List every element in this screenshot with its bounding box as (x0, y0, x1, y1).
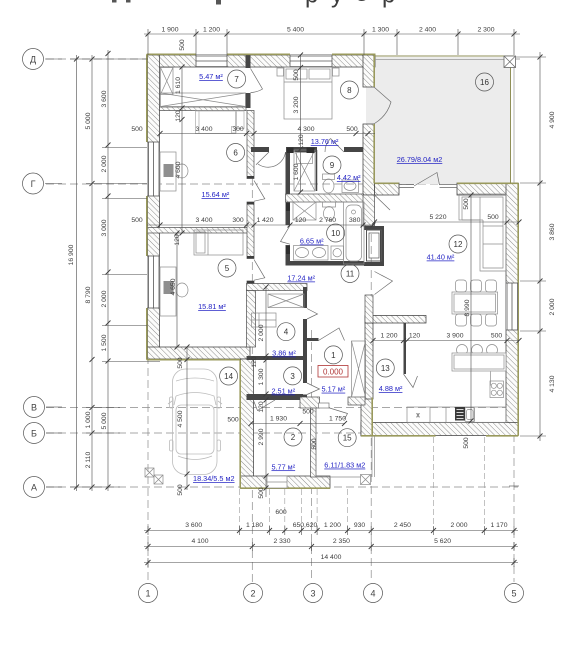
living room vertical dim 8990 (470, 195, 472, 421)
olive garage top wall outer (147, 359, 240, 361)
door room8 to terrace (375, 88, 392, 124)
bathroom/terrace side wall upper (363, 55, 375, 87)
pantry top wall (365, 316, 426, 324)
internal vertical dim room 8 (300, 55, 302, 192)
svg-text:4 300: 4 300 (297, 126, 314, 133)
svg-text:120: 120 (258, 401, 265, 413)
svg-text:Б: Б (31, 429, 37, 439)
bottom tick verticals (148, 526, 514, 567)
svg-text:120: 120 (409, 333, 421, 340)
svg-text:8 990: 8 990 (464, 299, 471, 316)
svg-text:6: 6 (233, 149, 238, 158)
olive outer contour left wall (146, 54, 148, 142)
nightstand room 6 (237, 111, 245, 129)
room 4 circle (277, 323, 295, 341)
window living room right wall (506, 283, 518, 330)
svg-text:5 000: 5 000 (101, 412, 108, 429)
svg-text:3 200: 3 200 (293, 96, 300, 113)
top dimension line (144, 33, 520, 35)
svg-text:500: 500 (177, 484, 184, 496)
olive wall under terrace (375, 182, 400, 184)
opening living room left (375, 195, 391, 210)
front door threshold (319, 403, 330, 408)
svg-text:4: 4 (370, 589, 375, 599)
rooms 4/3/2 vertical dim col (265, 287, 267, 497)
svg-text:1 200: 1 200 (324, 522, 341, 529)
svg-text:5 620: 5 620 (434, 538, 451, 545)
room 11 circle (341, 265, 359, 283)
axis circle G (23, 173, 44, 194)
room 13 circle (376, 359, 394, 377)
room 10 circle (327, 224, 345, 242)
room1 bottom wall (300, 397, 320, 408)
svg-text:500: 500 (227, 417, 239, 424)
svg-text:15: 15 (343, 434, 352, 443)
svg-text:120: 120 (295, 217, 307, 224)
svg-text:2 450: 2 450 (394, 522, 411, 529)
svg-text:1 180: 1 180 (246, 522, 263, 529)
wardrobe X room 7 left (161, 68, 174, 95)
olive porch right wall outer (371, 398, 373, 437)
internal vertical dim room 5 col (176, 233, 178, 347)
french door to terrace (414, 173, 440, 187)
axis line 1 (147, 56, 149, 582)
svg-text:41.40 м²: 41.40 м² (427, 253, 455, 262)
wall between rooms 7,8 and room 6 (160, 107, 247, 111)
room 15 circle (338, 429, 356, 447)
svg-text:1 200: 1 200 (203, 27, 220, 34)
svg-text:1 750: 1 750 (329, 416, 346, 423)
door corridor to room8 (in bottom wall of 8) (256, 152, 286, 167)
svg-text:Д: Д (30, 55, 36, 65)
terrace parapet top (375, 55, 514, 57)
dark appliance (455, 407, 465, 421)
window room 5 left wall (148, 256, 160, 308)
bar counter (452, 345, 506, 372)
axis circle D (23, 49, 44, 70)
bed room 8 (284, 67, 332, 119)
garage right wall (241, 359, 254, 488)
svg-text:4 900: 4 900 (549, 111, 556, 128)
axis line A (46, 486, 518, 488)
svg-text:у: у (331, 0, 343, 9)
svg-text:5 400: 5 400 (287, 27, 304, 34)
chairs dining (456, 280, 497, 326)
door room 4 (307, 309, 318, 320)
porch column (361, 475, 371, 485)
svg-text:3.86 м²: 3.86 м² (272, 349, 296, 358)
svg-text:14 400: 14 400 (321, 554, 342, 561)
cabinet room 4 (252, 313, 277, 327)
svg-text:120: 120 (298, 134, 305, 146)
svg-text:500: 500 (487, 214, 499, 221)
room1 right wall (365, 323, 373, 399)
axis line 4 (370, 150, 372, 582)
svg-text:930: 930 (354, 522, 366, 529)
svg-text:1 500: 1 500 (101, 334, 108, 351)
svg-text:120: 120 (175, 110, 182, 122)
svg-text:120: 120 (251, 356, 258, 368)
svg-text:13: 13 (381, 364, 390, 373)
svg-text:16 900: 16 900 (68, 244, 75, 265)
left dim col C (107, 50, 109, 491)
boiler room 11 (367, 230, 382, 261)
toilet room 10 (323, 202, 336, 221)
svg-text:2 760: 2 760 (319, 217, 336, 224)
svg-text:8: 8 (347, 86, 352, 95)
corridor bottom / room4 top wall (247, 284, 308, 291)
window room 8 top wall (290, 55, 332, 67)
svg-text:1 610: 1 610 (175, 77, 182, 94)
rooms 4/3 right partition (303, 287, 307, 308)
internal dim row hallway bottom (251, 423, 345, 425)
svg-text:4: 4 (284, 328, 289, 337)
internal dim row rooms 5/9/10 (147, 224, 375, 226)
svg-text:1: 1 (145, 589, 150, 599)
svg-text:5.47 м²: 5.47 м² (199, 72, 223, 81)
boiler niche walls (364, 226, 384, 230)
svg-text:1 300: 1 300 (372, 27, 389, 34)
svg-text:Г: Г (31, 179, 36, 189)
washer room 10 right (331, 246, 344, 260)
tick cross at axis5/A (509, 485, 519, 487)
right dim line (539, 52, 541, 441)
svg-text:3 000: 3 000 (101, 219, 108, 236)
kitchen bottom wall (361, 423, 518, 436)
svg-text:500: 500 (491, 333, 503, 340)
svg-text:4 500: 4 500 (177, 410, 184, 427)
svg-text:1 900: 1 900 (161, 27, 178, 34)
svg-text:2 990: 2 990 (258, 428, 265, 445)
svg-text:380: 380 (349, 217, 361, 224)
room2 bottom wall (240, 476, 330, 488)
svg-text:5 000: 5 000 (85, 112, 92, 129)
door room 10 (281, 226, 291, 245)
svg-text:500: 500 (131, 126, 143, 133)
svg-text:2 000: 2 000 (450, 522, 467, 529)
partition room 3 / room 2 (247, 394, 304, 400)
svg-text:8 790: 8 790 (85, 286, 92, 303)
svg-text:600: 600 (275, 509, 287, 516)
wardrobe room 4 (268, 294, 304, 308)
room 8 circle (340, 81, 358, 99)
front door room 1 (328, 408, 348, 420)
svg-text:2 300: 2 300 (477, 27, 494, 34)
svg-text:1 930: 1 930 (270, 416, 287, 423)
nightstands room 8 (277, 68, 339, 76)
svg-text:15.64 м²: 15.64 м² (202, 190, 230, 199)
kitchen counter (407, 407, 506, 422)
bathtub room 10 (344, 202, 365, 264)
svg-text:3 600: 3 600 (101, 90, 108, 107)
svg-text:5.77 м²: 5.77 м² (271, 462, 295, 471)
kitchen sink (465, 408, 475, 422)
bathroom/terrace side wall lower (363, 124, 375, 195)
terrace floor room 16 (366, 57, 510, 184)
svg-text:3 400: 3 400 (195, 217, 212, 224)
bottom dim row 2 (144, 546, 518, 548)
olive kitchen bottom outer (361, 435, 436, 437)
room 1 circle (324, 346, 342, 364)
porch right wall (361, 397, 373, 436)
long wardrobe X room 7 (161, 93, 246, 107)
svg-text:5: 5 (225, 264, 230, 273)
svg-text:16: 16 (480, 78, 489, 87)
svg-text:13.76 м²: 13.76 м² (311, 137, 339, 146)
bathroom left wall (286, 152, 291, 225)
svg-text:р: р (382, 0, 395, 9)
left dim col A 16900 (76, 55, 78, 491)
left dim col B (91, 55, 93, 491)
level mark 0.000 (318, 366, 348, 378)
svg-text:500: 500 (293, 69, 300, 81)
svg-text:2 000: 2 000 (258, 324, 265, 341)
svg-text:2: 2 (250, 589, 255, 599)
svg-text:12: 12 (454, 240, 463, 249)
room 2 circle (284, 428, 302, 446)
svg-text:10: 10 (331, 229, 340, 238)
svg-text:5: 5 (511, 589, 516, 599)
internal dim row kitchen/pantry (373, 340, 519, 342)
dining table room 12 (452, 292, 498, 314)
svg-text:500: 500 (463, 437, 470, 449)
svg-text:4.42 м²: 4.42 м² (337, 173, 361, 182)
svg-text:1 200: 1 200 (380, 333, 397, 340)
corridor right wall lower (365, 295, 373, 323)
vanity double sink room 10 (294, 246, 329, 261)
room 5 circle (218, 259, 236, 277)
internal dim row living room top (375, 221, 520, 223)
svg-text:x: x (417, 413, 420, 419)
right exterior wall (506, 183, 518, 434)
svg-text:15.81 м²: 15.81 м² (198, 302, 226, 311)
svg-text:7: 7 (234, 75, 239, 84)
pantry right partition (404, 323, 407, 374)
axis circle 4 (364, 584, 383, 603)
left exterior wall (148, 55, 160, 359)
svg-text:650,620: 650,620 (293, 522, 318, 529)
door room7 to room8 (251, 69, 263, 93)
olive room2 bottom outer (240, 487, 330, 489)
garage top wall (148, 347, 251, 359)
axis circle B (24, 423, 45, 444)
axis circle 2 (244, 584, 263, 603)
room 7 circle (228, 70, 246, 88)
svg-text:1: 1 (331, 351, 336, 360)
axis circle 3 (304, 584, 323, 603)
svg-text:2: 2 (291, 433, 296, 442)
axis line D (46, 58, 520, 60)
svg-text:26.79/8.04 м2: 26.79/8.04 м2 (397, 155, 443, 164)
svg-text:14: 14 (224, 372, 233, 381)
room 6 circle (227, 144, 245, 162)
svg-text:3 600: 3 600 (185, 522, 202, 529)
svg-text:2 000: 2 000 (549, 298, 556, 315)
door room 5 (254, 260, 265, 281)
living room top wall (under terrace) right part (457, 183, 518, 195)
svg-text:4 650: 4 650 (170, 278, 177, 295)
svg-text:1 420: 1 420 (256, 217, 273, 224)
svg-text:500: 500 (302, 409, 314, 416)
svg-text:3 860: 3 860 (549, 223, 556, 240)
car in garage (168, 369, 222, 475)
svg-text:р: р (305, 0, 318, 9)
svg-text:3: 3 (290, 372, 295, 381)
bathroom bottom wall (286, 261, 365, 266)
svg-text:3 400: 3 400 (195, 126, 212, 133)
corridor right wall upper (363, 195, 375, 226)
svg-text:500: 500 (131, 217, 143, 224)
svg-text:500: 500 (311, 438, 318, 450)
toilet room 9 (323, 174, 335, 193)
washing machine room 9 (294, 150, 315, 191)
axis line 2 (251, 130, 253, 582)
axis line B (46, 432, 514, 434)
svg-text:3 900: 3 900 (446, 333, 463, 340)
axis line V (46, 407, 514, 409)
svg-text:1 300: 1 300 (258, 368, 265, 385)
desk room 5 (160, 267, 188, 316)
svg-text:120: 120 (174, 234, 181, 246)
terrace door sill dashes (399, 183, 457, 189)
room2 right wall (311, 400, 317, 477)
door room 13 pantry (404, 374, 418, 388)
svg-text:11: 11 (346, 270, 355, 279)
door step room 2 bottom (267, 476, 287, 488)
window room 6 left wall (148, 142, 160, 196)
svg-text:6.65 м²: 6.65 м² (300, 237, 324, 246)
internal dim row rooms 6-8 upper (160, 133, 375, 135)
sofa room 12 (459, 194, 506, 271)
svg-text:2 000: 2 000 (101, 155, 108, 172)
svg-text:500: 500 (346, 126, 358, 133)
bed room 6 (196, 111, 237, 134)
svg-text:300: 300 (232, 217, 244, 224)
svg-text:4 600: 4 600 (175, 161, 182, 178)
partition right of rooms 6,5 (247, 111, 254, 179)
svg-text:2 000: 2 000 (101, 290, 108, 307)
svg-text:4 100: 4 100 (191, 538, 208, 545)
axis line G (46, 183, 440, 185)
wall between room 9 and room 10 (286, 194, 364, 202)
axis line 3 (311, 330, 313, 582)
wall between room 6 and room 5 (148, 228, 251, 234)
svg-text:9: 9 (330, 161, 335, 170)
axis circle V (24, 397, 45, 418)
svg-text:В: В (31, 403, 37, 413)
door room 1 top opening (319, 328, 345, 341)
svg-text:5.17 м²: 5.17 м² (322, 385, 346, 394)
svg-text:6.11/1.83 м2: 6.11/1.83 м2 (324, 461, 365, 470)
door corridor to living room (375, 272, 393, 295)
olive outer contour top wall (147, 53, 196, 55)
shaft X near room 1 (352, 341, 366, 397)
top exterior wall (148, 55, 376, 67)
partition room7/room8 (246, 55, 251, 68)
room 9 circle (323, 156, 341, 174)
svg-text:1 000: 1 000 (85, 411, 92, 428)
svg-text:3: 3 (310, 589, 315, 599)
porch threshold (316, 476, 361, 478)
svg-text:1 170: 1 170 (490, 522, 507, 529)
svg-text:500: 500 (463, 198, 470, 210)
svg-text:2 350: 2 350 (333, 538, 350, 545)
room 3 circle (284, 367, 302, 385)
svg-text:17.24 м²: 17.24 м² (287, 274, 315, 283)
axis circle 1 (139, 584, 158, 603)
door room 3 (307, 383, 320, 395)
internal vertical dim room 7 col (181, 67, 183, 233)
sink room 9 (342, 180, 359, 193)
svg-text:2 400: 2 400 (419, 27, 436, 34)
svg-text:1 600: 1 600 (293, 163, 300, 180)
stove (490, 381, 504, 398)
room 14 circle (220, 367, 238, 385)
bottom dim row 1 (144, 530, 518, 532)
svg-text:е: е (355, 0, 368, 7)
svg-text:18.34/5.5 м2: 18.34/5.5 м2 (193, 474, 235, 483)
garage columns (145, 468, 163, 484)
room 8 bottom wall segments (251, 147, 269, 152)
olive garage right wall outer (239, 360, 241, 489)
svg-text:0.000: 0.000 (323, 368, 344, 377)
terrace parapet right (510, 56, 512, 183)
svg-text:500: 500 (179, 39, 186, 51)
window room 7 top wall (196, 55, 227, 67)
door room 2 (254, 400, 276, 411)
bed room 5 (194, 230, 243, 255)
axis line 5 (513, 434, 515, 582)
terrace corner column (504, 56, 516, 68)
olive right wall outer (517, 183, 519, 436)
svg-text:2 110: 2 110 (85, 452, 92, 469)
axis circle A (24, 477, 45, 498)
svg-text:300: 300 (232, 126, 244, 133)
door to room 9 (325, 139, 344, 153)
room 12 circle (449, 235, 467, 253)
left extension lines (70, 59, 160, 487)
title remnant (cut off at top) (112, 0, 395, 9)
svg-text:4.88 м²: 4.88 м² (379, 384, 403, 393)
svg-text:500: 500 (177, 357, 184, 369)
svg-text:500: 500 (258, 487, 265, 499)
living room top wall (under terrace) left part (375, 183, 400, 195)
axis circle 5 (505, 584, 524, 603)
room 16 circle (476, 73, 494, 91)
shower room 10 (293, 202, 316, 220)
desk room 6 (160, 152, 188, 191)
svg-text:2 330: 2 330 (273, 538, 290, 545)
bottom dim row 3 (144, 562, 518, 564)
partition rooms 4/3 (247, 356, 304, 360)
vent shafts black (286, 148, 315, 255)
olive terrace-side wall of rooms 8/9 (373, 55, 375, 87)
svg-text:5 220: 5 220 (429, 214, 446, 221)
svg-text:4 130: 4 130 (549, 375, 556, 392)
svg-text:А: А (31, 483, 37, 493)
door room 6 (254, 181, 265, 202)
garage vertical dim col (186, 347, 188, 490)
svg-text:2.51 м²: 2.51 м² (271, 387, 295, 396)
